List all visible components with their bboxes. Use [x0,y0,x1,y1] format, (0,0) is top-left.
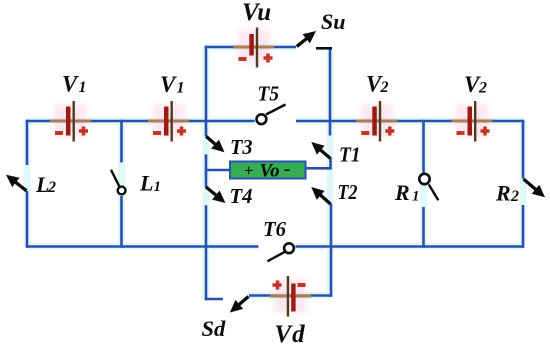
label T2 [338,180,358,204]
switch Su contact tick [316,47,332,50]
label V1 second [160,72,185,97]
wire: left column lower segment (T4 to Sd corner) [205,205,208,300]
switch T1 arrow [311,142,330,159]
wire halo background [27,47,523,299]
label L2 [35,172,56,197]
wire: L1 branch upper stub [120,120,123,163]
battery Vu [233,28,274,68]
svg-text:1: 1 [154,179,162,195]
svg-text:T5: T5 [258,81,280,105]
wire: bottom row left segment [26,245,259,248]
battery V2 first [356,101,397,142]
wire: R1 branch upper stub [422,120,425,173]
wire: bottom row right segment [296,245,525,248]
wire: left column x=206 (Vu down to T3 stub) [205,46,208,136]
wire: L2 branch lower stub [26,191,29,248]
battery V1 second [148,101,189,142]
label T6 [263,217,286,241]
svg-text:Vd: Vd [275,321,306,348]
switch L1 (circle + blade) [111,170,126,195]
svg-text:-: - [284,159,290,180]
svg-text:Sd: Sd [202,316,227,341]
svg-text:T1: T1 [339,143,361,167]
wire: main row right segment [296,120,524,123]
wire: right column lower segment (T2 to Vd row) [330,204,333,297]
battery V1 first [50,101,91,142]
battery Vd (mirrored, signs above) [270,276,311,317]
switch T3 arrow [206,136,225,152]
label Su [321,9,345,34]
wire: Vo right lead [305,167,332,170]
switch T5 (circle + blade) [257,105,286,125]
svg-text:1: 1 [79,79,87,96]
svg-text:2: 2 [380,79,389,96]
switch R1 (circle + blade) [419,174,438,201]
wire: main row left segment [26,120,255,123]
svg-text:R: R [495,181,511,206]
wire: top loop horizontal (Vu row) [205,46,296,49]
wire: left column middle segment across Vo row [205,154,208,187]
switch Sd arrow [230,297,249,313]
switch T2 arrow [311,187,330,204]
label V2 second [464,72,487,97]
svg-text:V: V [160,72,177,97]
svg-text:T6: T6 [263,217,286,241]
switch L2 arrow [6,175,27,191]
label T5 [258,81,280,105]
svg-text:Vo: Vo [260,161,280,182]
label Sd [202,316,227,341]
wire: right column x=330 (Su down to T1 stub) [329,49,332,136]
label Vd [275,321,306,348]
svg-text:2: 2 [47,179,56,196]
label Vu [242,0,271,26]
wire: L1 branch lower stub [120,196,123,248]
svg-text:+: + [244,163,253,180]
svg-text:1: 1 [412,189,420,205]
svg-text:Vu: Vu [242,0,271,26]
svg-text:T4: T4 [230,184,253,208]
switch T4 arrow [206,187,226,203]
svg-text:L: L [139,171,153,196]
wire: Vd row [249,294,332,297]
switch T6 (circle + blade) [268,243,294,261]
label R1 [394,180,420,205]
wire: right column small stub at Vo row [329,158,332,170]
battery V2 second [452,101,493,142]
label V1 first [62,72,87,97]
svg-text:Su: Su [321,9,345,34]
label T4 [230,184,253,208]
load box Vo [230,159,306,182]
label T3 [230,135,253,159]
wire: R2 branch lower stub [522,205,525,248]
label L1 [139,171,161,196]
switch Su arrow [297,31,316,47]
svg-text:T3: T3 [230,135,253,159]
wire: R1 branch lower stub [422,207,425,248]
label V2 first [366,72,389,97]
svg-text:V: V [62,72,79,97]
label T1 [339,143,361,167]
svg-text:1: 1 [177,80,185,97]
svg-text:T2: T2 [338,180,358,204]
wire: R2 branch upper stub [522,120,525,179]
wire: L2 branch upper stub [26,120,29,165]
wire: Vo left lead [206,169,231,172]
svg-text:R: R [394,180,410,205]
switch R2 arrow [524,179,546,197]
svg-text:2: 2 [478,80,487,97]
label R2 [495,181,519,206]
svg-text:2: 2 [510,188,519,205]
wire: Sd left stub [205,298,223,301]
